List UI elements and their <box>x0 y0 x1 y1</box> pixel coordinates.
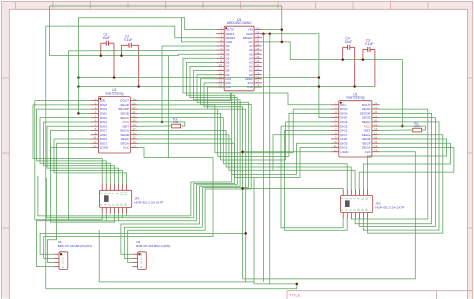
svg-text:26: 26 <box>256 43 259 47</box>
wire GND tap2 drop <box>269 34 271 284</box>
wire C3 legs <box>363 50 375 87</box>
junction C2 leg <box>120 54 123 57</box>
svg-text:CLK: CLK <box>365 150 372 154</box>
wire D2 drop to VCC node <box>161 46 163 122</box>
wire bottom 220.7 to U6 pin4 <box>37 221 197 267</box>
wire JP2 top3 feed <box>277 167 351 189</box>
wire U2 CLK to U6 pin2 <box>44 148 213 259</box>
svg-text:14: 14 <box>374 144 377 148</box>
svg-text:20: 20 <box>256 67 259 71</box>
wire bottom 215.9 to left riser <box>38 176 191 216</box>
wire U2 SEGE wrap down <box>138 113 220 160</box>
wire U2 DIG4 to JP1 top 2 <box>37 109 107 184</box>
wire U2 DOUT to U1 DIN <box>138 93 331 105</box>
svg-text:30: 30 <box>256 26 259 30</box>
svg-text:22: 22 <box>256 59 259 63</box>
wire U2 DIG3 to JP1 top 5 <box>47 126 118 184</box>
capacitor C1 <box>101 32 114 45</box>
wire U1 DIG6 feed <box>286 122 331 160</box>
wire D1/TX run <box>78 18 216 30</box>
wire mid link y=152.8 <box>215 152 293 154</box>
wire nano D6 zigzag <box>187 62 235 217</box>
svg-text:max7219cng: max7219cng <box>105 92 123 96</box>
wire D2 left <box>162 45 216 47</box>
wire VIN pin stub <box>262 29 282 31</box>
wire to U6 pin1 from D12 drop <box>40 233 246 254</box>
wire link 177.5 <box>235 177 301 179</box>
title block <box>287 291 473 299</box>
wire U1 DIG1 down <box>300 148 331 178</box>
wire U2 DIN feed <box>35 100 91 102</box>
wire U2 DIG6 to JP1 top 3 <box>40 118 110 184</box>
svg-text:10: 10 <box>93 136 96 140</box>
wire nano D5 zigzag <box>183 58 232 216</box>
wire U1 DIG2 feed <box>281 126 331 164</box>
wire U2 SEGC wrap down <box>138 118 223 164</box>
svg-text:28: 28 <box>256 35 259 39</box>
wire U2 VCC pin <box>138 121 162 123</box>
svg-text:HDR-IDC-2.5A-2X7P: HDR-IDC-2.5A-2X7P <box>375 206 404 210</box>
wire U1 DIG5 down <box>297 143 332 174</box>
IDC connector JP1 <box>99 184 163 214</box>
capacitor C4 <box>343 37 355 50</box>
junction U2 VCC node <box>161 121 164 124</box>
svg-text:29: 29 <box>256 30 259 34</box>
svg-text:21: 21 <box>374 114 377 118</box>
svg-text:17: 17 <box>374 131 377 135</box>
wire nano D12 drop <box>208 87 246 282</box>
capacitor C2 <box>122 35 139 48</box>
svg-text:15: 15 <box>374 140 377 144</box>
junction LOAD tap <box>241 151 244 154</box>
wire +5V to right caps and U1 VCC <box>262 42 403 126</box>
wire U2 LOAD to JP1 b4 <box>50 148 114 223</box>
wire GND tap1 drop <box>262 34 264 282</box>
wire bottom bus 2 <box>99 281 254 283</box>
svg-text:B4B-XH-AM-BK(LF)(SN): B4B-XH-AM-BK(LF)(SN) <box>136 244 170 248</box>
wire JP1 b6 stub <box>122 214 124 218</box>
svg-text:24: 24 <box>133 97 136 101</box>
svg-text:18: 18 <box>133 123 136 127</box>
svg-text:14: 14 <box>133 140 136 144</box>
wire nano D11 trunk <box>204 83 243 279</box>
wire U2 ISET to R1 <box>138 125 172 127</box>
wire U2 DIG2 to JP1 top 4 <box>44 122 115 184</box>
junction C1 leg <box>100 54 103 57</box>
wire JP1 b1 down <box>101 214 103 220</box>
wire U1 SEGB to JP2 top <box>367 139 446 189</box>
svg-text:10uF: 10uF <box>103 36 111 40</box>
svg-text:16: 16 <box>133 131 136 135</box>
wire nano D9 zigzag <box>197 75 248 228</box>
wire U1 LOAD left <box>243 151 332 153</box>
svg-text:15: 15 <box>133 136 136 140</box>
wire to U5 pin1 <box>121 224 200 254</box>
wire mid link y=167.0 <box>226 166 284 168</box>
svg-text:22: 22 <box>374 110 377 114</box>
junction U2 GND <box>77 112 80 115</box>
wire D3 left <box>68 49 216 52</box>
wire U1 SEGF to JP2 top <box>363 143 450 189</box>
wire bus join 283.9 <box>254 283 297 285</box>
wire U1 SEGG to JP2 bottom <box>367 135 442 233</box>
wire U2 SEGA wrap down <box>138 143 234 177</box>
wire R1 wrap <box>162 122 185 126</box>
wire U1 SEGDP to JP2 bottom <box>355 113 432 223</box>
svg-text:D12: D12 <box>226 85 232 89</box>
svg-text:10: 10 <box>219 63 222 67</box>
junction C3 leg <box>362 58 365 61</box>
junction +5V/VIN-line <box>281 41 284 44</box>
svg-text:12: 12 <box>93 144 96 148</box>
wire bottom bus 2 up <box>98 230 100 282</box>
svg-text:22: 22 <box>133 106 136 110</box>
wire top-left corner drop <box>49 6 51 56</box>
svg-text:HDR-IDC-2.5A-2X7P: HDR-IDC-2.5A-2X7P <box>134 201 163 205</box>
wire U2 SEGDP wrap down <box>138 109 218 156</box>
wire RESET run <box>46 26 216 38</box>
svg-text:13: 13 <box>133 144 136 148</box>
svg-text:20: 20 <box>133 114 136 118</box>
wire U2 DIG5 to JP1 top 7 <box>54 139 127 184</box>
capacitor C3 <box>363 39 375 52</box>
wire GND down to U2 <box>78 18 90 114</box>
wire GND trunk to U1 <box>262 34 331 118</box>
svg-text:20: 20 <box>374 119 377 123</box>
wire U1 CLK giant loop <box>243 152 416 279</box>
svg-text:25: 25 <box>256 47 259 51</box>
svg-text:CLK: CLK <box>123 146 130 150</box>
svg-text:16: 16 <box>256 84 259 88</box>
arduino nano U3 <box>216 18 262 91</box>
wire U1 SEGC to JP2 bottom <box>363 122 439 230</box>
svg-text:19: 19 <box>374 123 377 127</box>
svg-text:17: 17 <box>256 80 259 84</box>
wire bottom 217.7 to left riser <box>46 178 193 218</box>
wire VIN top run <box>50 6 282 42</box>
max7219 U2 <box>91 88 139 153</box>
junction U6 pin1 tap <box>244 232 247 235</box>
svg-text:12: 12 <box>219 71 222 75</box>
svg-text:0.1uF: 0.1uF <box>365 42 373 46</box>
wire nano D10 zigzag <box>201 79 252 231</box>
svg-text:23: 23 <box>256 55 259 59</box>
wire JP2 top4 feed <box>273 170 355 189</box>
wire U1 DIG3 feed <box>285 130 332 167</box>
wire U2 SEGB wrap down <box>138 135 229 171</box>
resistor R2 <box>413 121 422 132</box>
wire U1 SEGE to JP2 bottom <box>359 118 435 227</box>
wire JP1 b7 stub <box>126 214 128 216</box>
svg-text:17: 17 <box>133 127 136 131</box>
wire drop from caps bus <box>168 56 170 158</box>
wire U1 VCC pin <box>380 125 403 127</box>
wire to U5 pin3 <box>128 230 205 262</box>
svg-text:21: 21 <box>256 63 259 67</box>
wire JP2 b2 loop to riser <box>285 167 348 230</box>
svg-text:10uF: 10uF <box>345 40 353 44</box>
junction C4 right leg <box>353 85 356 88</box>
wire D11 branch to JP2 top1 <box>243 188 344 191</box>
svg-text:max7219cng: max7219cng <box>346 96 364 100</box>
wire U1 DIG7 feed <box>273 135 331 171</box>
resistor R1 <box>172 117 181 128</box>
svg-text:LOAD: LOAD <box>340 150 349 154</box>
IDC connector JP2 <box>340 189 404 219</box>
svg-text:D13: D13 <box>247 85 253 89</box>
svg-text:12: 12 <box>334 148 337 152</box>
wire outer loop left/bottom <box>46 26 297 289</box>
svg-text:24: 24 <box>256 51 259 55</box>
junction GND tap2 <box>269 32 272 35</box>
junction giant loop top <box>241 187 244 190</box>
XH connector U6 <box>54 240 92 269</box>
wire U2 DIG0 to JP1 top 1 <box>33 105 102 184</box>
wire nano GND-L up loop <box>182 18 217 42</box>
svg-text:0.1uF: 0.1uF <box>124 38 132 42</box>
svg-text:27: 27 <box>256 39 259 43</box>
wire U1 ISET to R2 <box>380 129 413 131</box>
wire C4 legs <box>343 47 355 86</box>
wire D3 drop <box>67 51 69 220</box>
svg-text:23: 23 <box>133 102 136 106</box>
wire JP2 top2 feed <box>281 164 347 189</box>
wire U2 DIG7 to JP1 top 6 <box>51 130 123 184</box>
svg-text:10: 10 <box>334 140 337 144</box>
junction U1 VCC node <box>401 125 404 128</box>
wire U1 SEGA to JP2 top <box>359 148 454 190</box>
junction C2 right leg <box>137 85 140 88</box>
wire C2 legs <box>122 45 139 86</box>
svg-text:TITLE:: TITLE: <box>290 293 302 298</box>
wire U2 SEGG wrap down <box>138 130 226 167</box>
junction bottom right <box>296 283 299 286</box>
junction C1 right leg <box>113 76 116 79</box>
wire long GND bus A <box>78 77 319 79</box>
svg-text:23: 23 <box>374 106 377 110</box>
svg-text:15: 15 <box>219 84 222 88</box>
wire JP2 b1 loop to riser <box>281 164 343 228</box>
svg-text:14: 14 <box>219 80 222 84</box>
wire U2 DIG1 to U6 pin3 <box>48 143 91 262</box>
junction GND tap1 <box>262 32 265 35</box>
wire U1 DIG0 feed <box>293 109 331 153</box>
svg-text:19: 19 <box>256 71 259 75</box>
junction C4 leg <box>341 58 344 61</box>
wire C1 legs <box>101 43 114 77</box>
wire mid link y=163.8 <box>223 163 281 165</box>
wire far-left drop to JP1 b1 <box>35 101 102 220</box>
wire mid link y=160.0 <box>221 159 286 161</box>
wire JP1 b2 stub <box>105 214 107 221</box>
svg-text:19: 19 <box>133 119 136 123</box>
wire mid link y=156.4 <box>218 155 289 157</box>
svg-text:18: 18 <box>374 127 377 131</box>
svg-text:LOAD: LOAD <box>100 146 109 150</box>
wire long GND bus B <box>78 86 375 88</box>
wire U2 SEGF wrap down <box>138 139 232 174</box>
svg-text:16: 16 <box>374 136 377 140</box>
junction VIN <box>281 28 284 31</box>
svg-text:11: 11 <box>334 144 337 148</box>
wire R2 wrap <box>402 126 425 130</box>
wire U1 DIG4 feed <box>289 113 331 156</box>
svg-text:24: 24 <box>374 102 377 106</box>
wire caps bus to nano D4 <box>50 54 217 55</box>
wire vertical x=296.8 stub <box>296 284 298 289</box>
svg-text:ARDUINO NANO: ARDUINO NANO <box>227 21 252 25</box>
wire nano D7 zigzag <box>190 67 237 221</box>
svg-text:21: 21 <box>133 110 136 114</box>
svg-text:B4B-XH-AM-BK(LF)(SN): B4B-XH-AM-BK(LF)(SN) <box>58 244 92 248</box>
max7219 U1 <box>331 92 380 157</box>
wire U2 SEGD wrap down <box>138 105 215 153</box>
wire mid link y=170.3 <box>229 169 273 171</box>
wire mid drop x=254 <box>253 178 255 284</box>
wire JP1 b5 stub <box>118 214 120 221</box>
XH connector U5 <box>132 240 170 269</box>
wire to U5 pin2 <box>124 227 202 258</box>
wire link 174.5 <box>232 174 297 176</box>
svg-text:13: 13 <box>374 148 377 152</box>
wire U1 SEGD to JP2 bottom <box>351 109 428 219</box>
wire nano D8 zigzag <box>194 71 241 224</box>
